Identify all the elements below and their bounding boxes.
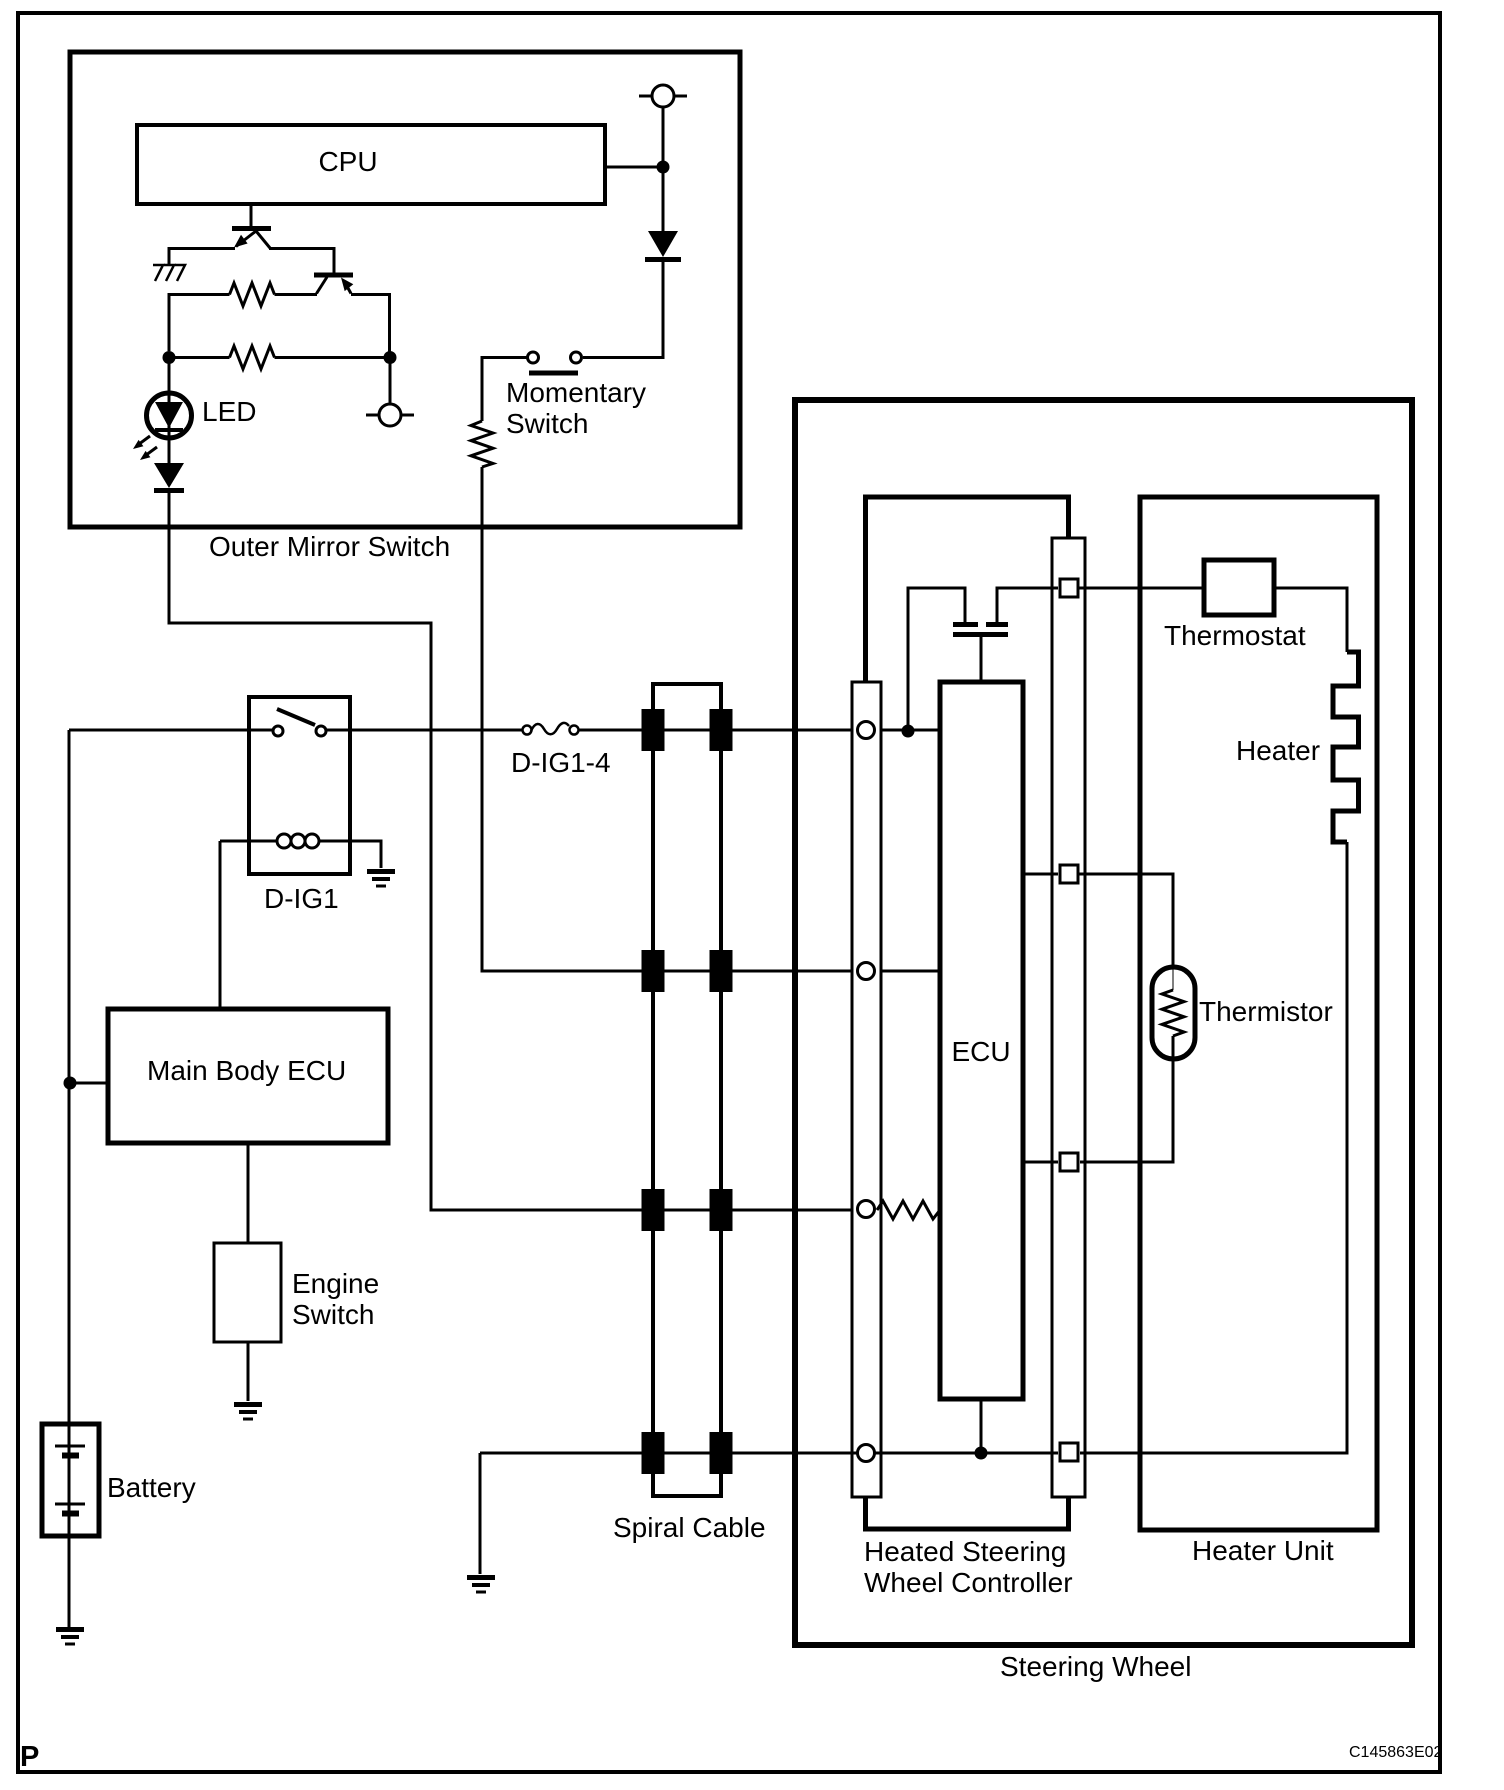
LED D1 bbox=[133, 393, 192, 460]
transistor Q1 (PNP) bbox=[232, 229, 271, 249]
wire ECU bottom to row 4 bbox=[980, 1399, 983, 1453]
wire MOSFET gate from node E bbox=[908, 588, 965, 731]
controller right connector strip bbox=[1052, 538, 1085, 1497]
wire diode D3 to momentary switch bbox=[583, 260, 663, 358]
controller circle connector 3 bbox=[858, 1201, 875, 1218]
svg-text:Battery: Battery bbox=[107, 1472, 196, 1503]
svg-text:Steering Wheel: Steering Wheel bbox=[1000, 1651, 1191, 1682]
wire row1 through connector into ECU bbox=[881, 729, 940, 732]
heated steering wheel controller box bbox=[866, 497, 1069, 1529]
wire terminal down to diode D3 bbox=[662, 107, 665, 231]
thermostat box bbox=[1204, 560, 1274, 615]
terminal (circle) top right bbox=[639, 85, 687, 107]
resistor R1 bbox=[230, 283, 275, 306]
svg-text:ECU: ECU bbox=[951, 1036, 1010, 1067]
relay contact circles and arm bbox=[273, 709, 326, 736]
svg-text:C145863E02: C145863E02 bbox=[1349, 1744, 1443, 1761]
svg-text:Momentary: Momentary bbox=[506, 377, 646, 408]
label: Heated Steering Wheel Controller bbox=[864, 1536, 1073, 1598]
wire row4 ground side bbox=[480, 1452, 1058, 1455]
ground (controller) bbox=[467, 1578, 495, 1593]
wire R3 down to spiral cable row 2 bbox=[482, 467, 940, 971]
wire Q2 collector down to node B bbox=[351, 295, 390, 358]
wire CPU right to node C bbox=[605, 166, 663, 169]
battery bbox=[42, 1424, 99, 1536]
wire LED chain down and across to spiral cable row 3 bbox=[169, 488, 877, 1210]
svg-text:Switch: Switch bbox=[292, 1299, 374, 1330]
fuse D-IG1-4 bbox=[523, 723, 579, 735]
svg-text:Engine: Engine bbox=[292, 1268, 379, 1299]
svg-text:Heater: Heater bbox=[1236, 735, 1320, 766]
wire momentary switch to resistor R3 bbox=[482, 358, 527, 422]
node A (junction) bbox=[163, 351, 176, 364]
wire MOSFET to ECU top bbox=[980, 637, 983, 682]
controller square connector 4 bbox=[1060, 1443, 1078, 1461]
wire thermistor to square connector 3 bbox=[1080, 1059, 1173, 1162]
controller square connector 1 bbox=[1060, 579, 1078, 597]
wire row4 down to ground bbox=[479, 1453, 482, 1574]
wire thermostat to heater element bbox=[1274, 588, 1347, 652]
diode D2 (below LED) bbox=[154, 463, 184, 491]
wire fuse to controller connector row 1 bbox=[579, 729, 940, 732]
svg-text:LED: LED bbox=[202, 396, 256, 427]
wire node A to R2 bbox=[169, 356, 230, 359]
CPU block bbox=[137, 125, 605, 204]
wire Main Body ECU to Engine Switch bbox=[247, 1143, 250, 1243]
svg-text:Outer Mirror Switch: Outer Mirror Switch bbox=[209, 531, 450, 562]
wire Q1 collector to Q2 base bbox=[269, 249, 334, 274]
node C (junction) bbox=[657, 161, 670, 174]
svg-text:Thermistor: Thermistor bbox=[1199, 996, 1333, 1027]
svg-text:P: P bbox=[20, 1741, 39, 1773]
controller left connector strip bbox=[852, 682, 881, 1497]
controller circle connector 4 bbox=[858, 1445, 875, 1462]
wire battery feed to relay contact bbox=[69, 729, 272, 732]
wire node B to terminal bbox=[389, 358, 392, 405]
wire square connector 2 to thermistor bbox=[1078, 874, 1173, 967]
wire CPU to Q1 base bbox=[250, 204, 253, 227]
svg-text:Wheel Controller: Wheel Controller bbox=[864, 1567, 1073, 1598]
wire square connector 1 to thermostat bbox=[1078, 587, 1204, 590]
svg-text:Spiral Cable: Spiral Cable bbox=[613, 1512, 766, 1543]
svg-text:Main Body ECU: Main Body ECU bbox=[147, 1055, 346, 1086]
controller circle connector 2 bbox=[858, 963, 875, 980]
svg-text:Heated Steering: Heated Steering bbox=[864, 1536, 1066, 1567]
node D (junction) bbox=[64, 1077, 77, 1090]
wire relay coil to Main Body ECU bbox=[219, 841, 222, 1009]
thermistor RT1 bbox=[1152, 967, 1195, 1059]
svg-text:Heater Unit: Heater Unit bbox=[1192, 1535, 1334, 1566]
ground (battery) bbox=[56, 1630, 84, 1645]
wire ECU right to square connector 2 bbox=[1023, 873, 1058, 876]
heater element (meander) bbox=[1333, 652, 1359, 842]
node F (junction) bbox=[975, 1447, 988, 1460]
relay coil L1 bbox=[220, 834, 381, 868]
MOSFET Q3 bbox=[953, 625, 1008, 635]
svg-text:D-IG1: D-IG1 bbox=[264, 883, 339, 914]
controller square connector 3 bbox=[1060, 1153, 1078, 1171]
resistor R4 (row 3 into ECU) bbox=[877, 1201, 940, 1219]
wire R1 left lead down to node A bbox=[169, 295, 230, 352]
Engine Switch box bbox=[214, 1243, 379, 1342]
spiral cable connector blocks row y=730 bbox=[642, 709, 733, 751]
relay D-IG1 box bbox=[249, 697, 350, 874]
terminal (circle) below Q2 bbox=[366, 404, 414, 426]
transistor Q2 (PNP) bbox=[314, 275, 353, 294]
wire Engine Switch to ground bbox=[247, 1342, 250, 1401]
resistor R3 (vertical) bbox=[471, 421, 493, 467]
wire Q2 emitter lead to R1 bbox=[275, 293, 318, 296]
spiral cable connector blocks row y=1453 bbox=[642, 1432, 733, 1474]
wire MOSFET drain to square connector 1 bbox=[997, 588, 1058, 622]
node E (junction) bbox=[902, 725, 915, 738]
ground (relay coil) bbox=[367, 872, 395, 887]
ground (engine switch) bbox=[234, 1405, 262, 1420]
wire relay contact to fuse D-IG1-4 bbox=[327, 729, 522, 732]
svg-text:CPU: CPU bbox=[318, 146, 377, 177]
diode D3 bbox=[645, 231, 681, 260]
node B (junction) bbox=[384, 351, 397, 364]
svg-text:D-IG1-4: D-IG1-4 bbox=[511, 747, 611, 778]
spiral cable body bbox=[653, 684, 721, 1496]
wire node A down through LED bbox=[168, 358, 171, 464]
label: Momentary Switch bbox=[506, 377, 646, 439]
wire Q1 emitter to chassis ground bbox=[169, 249, 235, 265]
heater unit box bbox=[1140, 497, 1377, 1530]
wire heater element down to row 4 bbox=[1080, 842, 1347, 1453]
svg-text:Switch: Switch bbox=[506, 408, 588, 439]
momentary switch SW1 bbox=[528, 352, 582, 373]
wire node D to Main Body ECU bbox=[70, 1082, 108, 1085]
spiral cable connector blocks row y=1210 bbox=[642, 1189, 733, 1231]
chassis ground (outer mirror switch) bbox=[153, 265, 185, 281]
spiral cable connector blocks row y=971 bbox=[642, 950, 733, 992]
resistor R2 bbox=[230, 346, 275, 369]
ECU box bbox=[940, 682, 1023, 1399]
svg-text:Thermostat: Thermostat bbox=[1164, 620, 1306, 651]
outer mirror switch enclosure box bbox=[70, 52, 740, 527]
controller square connector 2 bbox=[1060, 865, 1078, 883]
wire battery main line bbox=[68, 730, 71, 1628]
Main Body ECU box bbox=[108, 1009, 388, 1143]
steering wheel enclosure box bbox=[795, 400, 1412, 1645]
wire ECU right to square connector 3 bbox=[1023, 1161, 1058, 1164]
wire R2 right lead to node B bbox=[275, 356, 391, 359]
controller circle connector 1 bbox=[858, 722, 875, 739]
